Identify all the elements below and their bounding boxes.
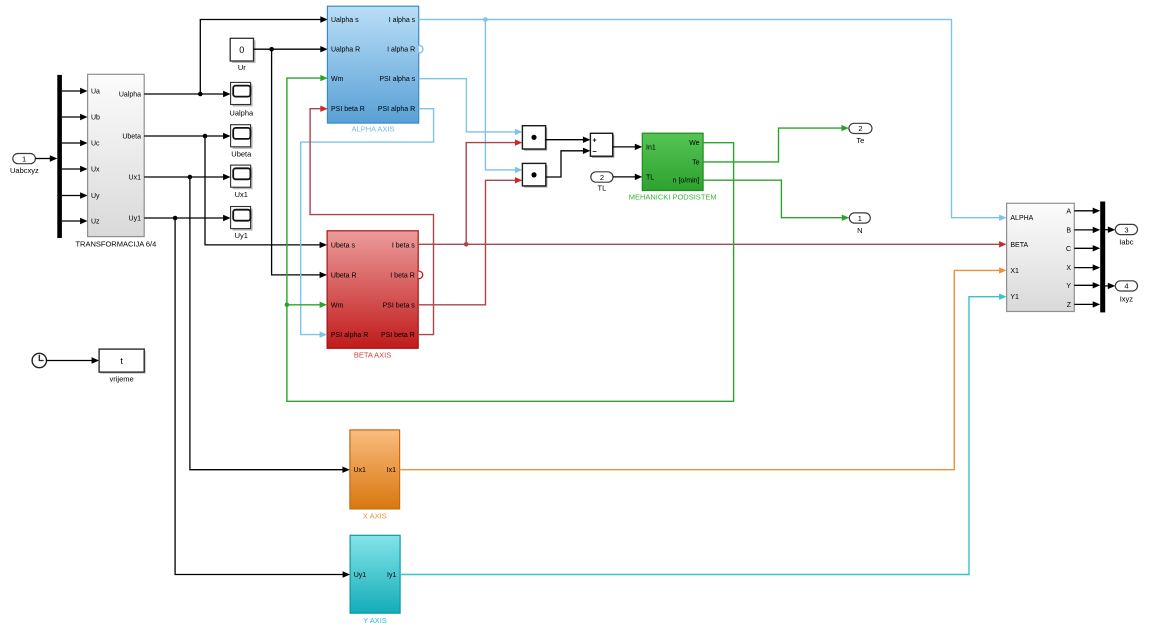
subsystem MEHANICKI PODSISTEM	[629, 133, 717, 201]
svg-text:n [o/min]: n [o/min]	[673, 178, 700, 185]
svg-text:B: B	[1066, 227, 1071, 234]
svg-text:A: A	[1066, 208, 1071, 215]
svg-text:TL: TL	[598, 183, 607, 192]
wire Te to outport 2	[703, 125, 849, 162]
svg-text:Ubeta R: Ubeta R	[331, 272, 357, 279]
product block 1	[522, 126, 547, 151]
svg-text:0: 0	[239, 45, 244, 55]
svg-text:Iabc: Iabc	[1119, 237, 1133, 246]
wire X to mux	[1074, 264, 1100, 270]
svg-text:In1: In1	[646, 144, 656, 151]
svg-text:X1: X1	[1010, 268, 1019, 275]
svg-text:Uy: Uy	[91, 193, 100, 200]
wire Y to mux	[1074, 282, 1100, 288]
wire I alpha s to converter ALPHA with branch to product2	[419, 17, 1007, 221]
svg-text:1: 1	[22, 154, 26, 163]
clock	[32, 353, 46, 367]
wire PSI alpha R to BETA PSI alpha R	[301, 109, 434, 338]
svg-text:Ualpha: Ualpha	[229, 108, 254, 117]
svg-text:Uy1: Uy1	[235, 231, 248, 240]
svg-text:Wm: Wm	[331, 302, 344, 309]
svg-text:Wm: Wm	[331, 76, 344, 83]
svg-text:I beta R: I beta R	[390, 272, 415, 279]
svg-text:C: C	[1066, 246, 1071, 253]
inport 2 TL	[591, 172, 613, 193]
wire TL to green block	[613, 174, 642, 180]
svg-text:2: 2	[858, 124, 862, 133]
svg-text:Ixyz: Ixyz	[1120, 294, 1134, 303]
constant Ur value 0	[230, 38, 255, 72]
svg-text:2: 2	[600, 173, 604, 182]
svg-text:Ux1: Ux1	[235, 190, 248, 199]
svg-text:vrijeme: vrijeme	[110, 374, 134, 383]
wire Ux1 to scope with branch to X AXIS	[144, 174, 350, 473]
svg-text:Ua: Ua	[91, 89, 100, 96]
wire C to mux	[1074, 245, 1100, 251]
subsystem BETA AXIS	[327, 231, 418, 360]
wire bar to Uy	[62, 192, 88, 198]
wire B to mux	[1074, 227, 1100, 233]
svg-text:Ux1: Ux1	[129, 175, 142, 182]
svg-text:PSI beta s: PSI beta s	[383, 302, 416, 309]
svg-text:Y: Y	[1066, 283, 1071, 290]
wire A to mux	[1074, 208, 1100, 214]
inport 1 Uabcxyz	[10, 154, 39, 176]
wire PSI beta s to product2	[418, 177, 522, 305]
wire Iy1 to converter Y1	[400, 294, 1007, 575]
svg-text:Ualpha R: Ualpha R	[331, 47, 360, 54]
wire sum to In1	[613, 144, 643, 150]
svg-text:Te: Te	[856, 136, 864, 145]
svg-text:1: 1	[858, 214, 862, 223]
svg-text:PSI alpha R: PSI alpha R	[331, 332, 368, 339]
wire product1 to sum plus	[546, 137, 591, 143]
svg-text:ALPHA AXIS: ALPHA AXIS	[352, 125, 395, 134]
outport 4 Ixyz	[1115, 281, 1137, 304]
svg-text:Uabcxyz: Uabcxyz	[10, 166, 39, 175]
svg-text:Ualpha s: Ualpha s	[331, 17, 359, 24]
svg-text:+: +	[593, 138, 597, 145]
svg-text:Ubeta s: Ubeta s	[331, 242, 356, 249]
product block 2	[522, 163, 547, 187]
outport 3 Iabc	[1115, 224, 1137, 246]
wire Z to mux	[1074, 301, 1100, 307]
svg-text:Ur: Ur	[238, 63, 246, 72]
scope Ualpha	[229, 82, 254, 117]
svg-text:ALPHA: ALPHA	[1010, 215, 1033, 222]
subsystem Y AXIS	[350, 535, 400, 625]
wire Ubeta to scope with branch to BETA AXIS	[144, 133, 327, 248]
sum block	[590, 133, 614, 157]
svg-text:Ubeta: Ubeta	[122, 134, 141, 141]
svg-text:We: We	[689, 140, 699, 147]
wire bar to Uc	[62, 140, 88, 146]
wire mux to outport 3	[1105, 227, 1115, 233]
wire clock to display	[47, 357, 100, 363]
wire PSI alpha s to product1	[419, 79, 523, 135]
display vrijeme	[99, 349, 146, 383]
outport 1 N	[849, 213, 870, 235]
scope Ux1	[231, 165, 253, 199]
svg-text:Te: Te	[692, 159, 700, 166]
wire bar to Ux	[62, 166, 88, 172]
svg-text:PSI beta R: PSI beta R	[381, 332, 415, 339]
svg-text:Ux1: Ux1	[354, 467, 367, 474]
wire Ix1 to converter X1	[400, 267, 1007, 470]
svg-text:TRANSFORMACIJA 6/4: TRANSFORMACIJA 6/4	[75, 240, 156, 249]
svg-text:Uz: Uz	[91, 219, 100, 226]
mux bar right	[1100, 202, 1105, 313]
svg-text:I beta s: I beta s	[392, 242, 415, 249]
svg-text:4: 4	[1124, 282, 1128, 291]
svg-text:BETA AXIS: BETA AXIS	[354, 351, 391, 360]
scope Uy1	[231, 207, 253, 241]
subsystem ALPHA AXIS	[327, 6, 418, 133]
svg-text:Uy1: Uy1	[129, 216, 142, 223]
svg-text:3: 3	[1124, 225, 1128, 234]
svg-text:Uc: Uc	[91, 141, 100, 148]
svg-text:TL: TL	[646, 174, 654, 181]
svg-text:Uy1: Uy1	[354, 572, 367, 579]
wire Uy1 to scope with branch to Y AXIS	[144, 215, 350, 578]
svg-text:MEHANICKI PODSISTEM: MEHANICKI PODSISTEM	[629, 193, 717, 202]
wire Ualpha to scope with branch to ALPHA AXIS	[144, 16, 328, 97]
svg-text:Z: Z	[1067, 302, 1072, 309]
svg-text:Iy1: Iy1	[387, 572, 396, 579]
unconnected output marker I alpha R	[419, 45, 423, 53]
svg-text:Ub: Ub	[91, 115, 100, 122]
subsystem X AXIS	[350, 430, 400, 520]
wire bar to Ua	[62, 88, 88, 94]
wire mux to outport 4	[1105, 283, 1115, 289]
wire inport1 to mux bar	[35, 155, 57, 161]
scope Ubeta	[231, 125, 253, 159]
wire product2 to sum minus	[546, 148, 591, 177]
wire PSI beta R to ALPHA PSI beta R	[310, 106, 433, 335]
svg-text:X: X	[1066, 265, 1071, 272]
wire bar to Uz	[62, 218, 88, 224]
svg-text:PSI alpha s: PSI alpha s	[379, 76, 415, 83]
wire Ur to ALPHA Ualpha R with branch to BETA Ubeta R	[254, 46, 328, 278]
wire I beta s to converter BETA with branch to product1	[418, 139, 1006, 247]
svg-text:N: N	[857, 226, 862, 235]
svg-text:PSI alpha R: PSI alpha R	[378, 106, 415, 113]
svg-text:Ix1: Ix1	[387, 467, 396, 474]
svg-text:Ubeta: Ubeta	[231, 150, 252, 159]
converter block alpha-beta-xy to abcxyz	[1007, 203, 1075, 311]
svg-text:Ualpha: Ualpha	[119, 92, 141, 99]
wire We feedback to Wm of ALPHA and BETA	[285, 75, 734, 401]
svg-text:X AXIS: X AXIS	[363, 511, 387, 520]
wire n to outport 1	[703, 180, 849, 221]
svg-text:Y1: Y1	[1010, 294, 1019, 301]
svg-text:Ux: Ux	[91, 167, 100, 174]
svg-text:Y AXIS: Y AXIS	[363, 616, 387, 625]
unconnected output marker I beta R	[418, 271, 422, 279]
subsystem TRANSFORMACIJA 6/4	[75, 74, 156, 248]
svg-text:I alpha R: I alpha R	[387, 47, 415, 54]
svg-text:I alpha s: I alpha s	[389, 17, 416, 24]
demux bar left	[57, 75, 62, 238]
svg-text:PSI beta R: PSI beta R	[331, 106, 365, 113]
outport 2 Te	[849, 123, 872, 145]
svg-text:−: −	[592, 147, 597, 156]
wire bar to Ub	[62, 114, 88, 120]
svg-text:BETA: BETA	[1010, 242, 1028, 249]
